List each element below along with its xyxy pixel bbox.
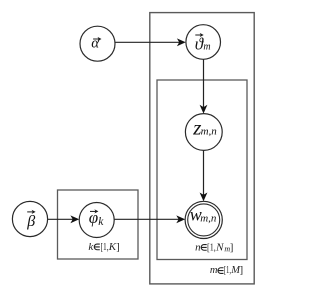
svg-text:m: m bbox=[210, 265, 218, 276]
node phi_k bbox=[79, 203, 114, 238]
svg-text:m,n: m,n bbox=[200, 213, 217, 225]
svg-text:N: N bbox=[215, 241, 224, 253]
svg-text:m,n: m,n bbox=[201, 125, 218, 137]
svg-text:m: m bbox=[203, 41, 210, 52]
wire phi->w bbox=[114, 218, 179, 220]
plate M (outer) bbox=[150, 13, 254, 284]
svg-text:β: β bbox=[26, 213, 35, 230]
wire theta->z bbox=[203, 59, 205, 107]
wire alpha->theta bbox=[115, 41, 180, 43]
wire z->w bbox=[203, 150, 205, 195]
svg-text:k: k bbox=[98, 216, 104, 228]
svg-text:]: ] bbox=[240, 265, 244, 276]
plate K bbox=[58, 190, 139, 259]
node z_mn bbox=[185, 114, 222, 151]
node w_mn (observed) bbox=[185, 201, 222, 238]
svg-text:]: ] bbox=[230, 242, 234, 253]
plate N_m (inner) bbox=[157, 80, 247, 260]
label k in [1,K] bbox=[88, 241, 119, 253]
svg-text:n: n bbox=[195, 241, 201, 253]
svg-text:]: ] bbox=[116, 242, 120, 253]
node alpha bbox=[80, 26, 115, 61]
svg-text:[1,: [1, bbox=[101, 242, 109, 253]
label m in [1,M] bbox=[210, 265, 243, 276]
node theta_m bbox=[186, 25, 221, 60]
node beta bbox=[12, 201, 47, 236]
svg-text:[1,: [1, bbox=[224, 265, 231, 276]
wire beta->phi bbox=[48, 218, 73, 220]
svg-text:[1,: [1, bbox=[207, 242, 216, 253]
label n in [1,N_m] bbox=[195, 241, 233, 253]
